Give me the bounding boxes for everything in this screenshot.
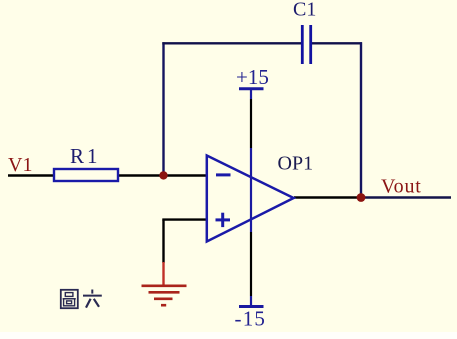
svg-text:Vout: Vout [381, 176, 422, 198]
ground [142, 262, 187, 305]
wire negative supply [250, 232, 252, 306]
op-amp U1 triangle [207, 156, 294, 242]
wire non-inverting input down to ground [162, 220, 164, 263]
wire feedback top left segment [162, 42, 302, 44]
power -15 symbol bar [239, 305, 264, 308]
label figure caption 圖六 [61, 290, 102, 309]
svg-text:V1: V1 [8, 154, 32, 176]
wire output to Vout [294, 196, 451, 198]
op-amp inverting input minus sign [216, 173, 231, 176]
svg-text:+15: +15 [236, 65, 269, 89]
svg-text:R1: R1 [70, 144, 101, 168]
svg-text:C1: C1 [293, 0, 316, 21]
node junction dot at output [357, 193, 366, 202]
svg-text:-15: -15 [235, 307, 267, 331]
svg-text:OP1: OP1 [278, 153, 314, 175]
wire positive supply [250, 90, 252, 233]
wire input V1 to R1 [8, 174, 54, 176]
resistor R1 [54, 169, 118, 181]
op-amp non-inverting input plus sign [216, 213, 231, 227]
wire feedback left vertical [162, 42, 164, 175]
power +15 symbol bar [239, 87, 264, 90]
wire feedback right vertical [360, 42, 362, 197]
wire non-inverting input horizontal [162, 218, 206, 220]
capacitor C1 [302, 25, 310, 64]
node junction dot at inverting input [159, 171, 167, 179]
wire feedback top right segment [311, 42, 362, 44]
wire R1 to op-amp inverting input [118, 174, 207, 176]
